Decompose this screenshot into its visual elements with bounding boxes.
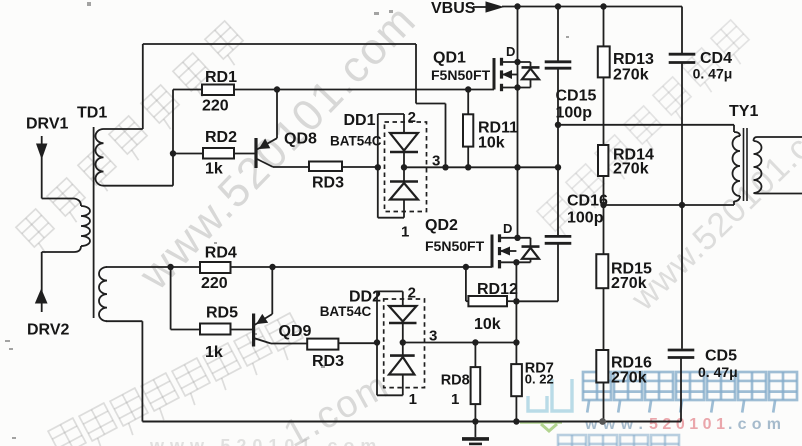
svg-text:. c o m: . c o m: [728, 416, 781, 433]
svg-text:100p: 100p: [556, 105, 593, 122]
svg-text:DRV1: DRV1: [26, 116, 68, 133]
svg-text:RD3: RD3: [312, 353, 344, 370]
svg-text:QD8: QD8: [284, 131, 317, 148]
svg-text:QD1: QD1: [433, 50, 466, 67]
svg-text:1: 1: [401, 224, 409, 241]
svg-text:270k: 270k: [611, 275, 647, 292]
svg-text:D: D: [506, 44, 515, 59]
svg-text:1: 1: [409, 391, 417, 408]
svg-text:RD1: RD1: [205, 69, 237, 86]
svg-text:RD12: RD12: [477, 281, 518, 298]
svg-text:DRV2: DRV2: [27, 322, 69, 339]
svg-text:5 2 0 1 0 1: 5 2 0 1 0 1: [649, 416, 725, 433]
svg-text:RD3: RD3: [312, 175, 344, 192]
svg-text:BAT54C: BAT54C: [330, 134, 382, 149]
svg-text:F5N50FT: F5N50FT: [425, 238, 485, 254]
svg-text:100p: 100p: [567, 210, 604, 227]
svg-text:1k: 1k: [205, 344, 223, 361]
svg-text:CD5: CD5: [705, 348, 737, 365]
svg-text:QD2: QD2: [425, 217, 458, 234]
svg-text:www.520101.com: www.520101.com: [149, 436, 382, 446]
svg-text:BAT54C: BAT54C: [320, 304, 372, 319]
svg-text:2: 2: [408, 285, 416, 302]
svg-text:2: 2: [408, 109, 416, 126]
svg-text:270k: 270k: [613, 67, 649, 84]
svg-text:RD5: RD5: [206, 305, 238, 322]
svg-text:VBUS: VBUS: [431, 0, 476, 17]
svg-text:0. 47μ: 0. 47μ: [693, 66, 733, 82]
svg-text:10k: 10k: [478, 135, 505, 152]
svg-text:0. 22: 0. 22: [525, 372, 554, 387]
svg-text:0. 47μ: 0. 47μ: [698, 364, 738, 380]
svg-text:D: D: [503, 221, 512, 236]
svg-text:w w w .: w w w .: [584, 416, 643, 433]
svg-text:220: 220: [202, 98, 229, 115]
svg-text:CD4: CD4: [700, 50, 732, 67]
svg-text:RD4: RD4: [205, 245, 237, 262]
svg-text:TD1: TD1: [77, 105, 107, 122]
svg-text:270k: 270k: [611, 370, 647, 387]
svg-text:1k: 1k: [205, 161, 223, 178]
svg-text:DD1: DD1: [344, 112, 376, 129]
svg-text:220: 220: [201, 275, 228, 292]
svg-text:270k: 270k: [613, 161, 649, 178]
svg-text:CD15: CD15: [556, 88, 597, 105]
svg-text:RD8: RD8: [441, 373, 470, 389]
svg-text:RD13: RD13: [613, 51, 654, 68]
svg-text:10k: 10k: [474, 316, 501, 333]
svg-text:1: 1: [451, 391, 459, 408]
svg-text:RD2: RD2: [205, 129, 237, 146]
svg-text:F5N50FT: F5N50FT: [431, 67, 491, 83]
svg-text:TY1: TY1: [729, 103, 758, 120]
svg-text:QD9: QD9: [279, 323, 312, 340]
